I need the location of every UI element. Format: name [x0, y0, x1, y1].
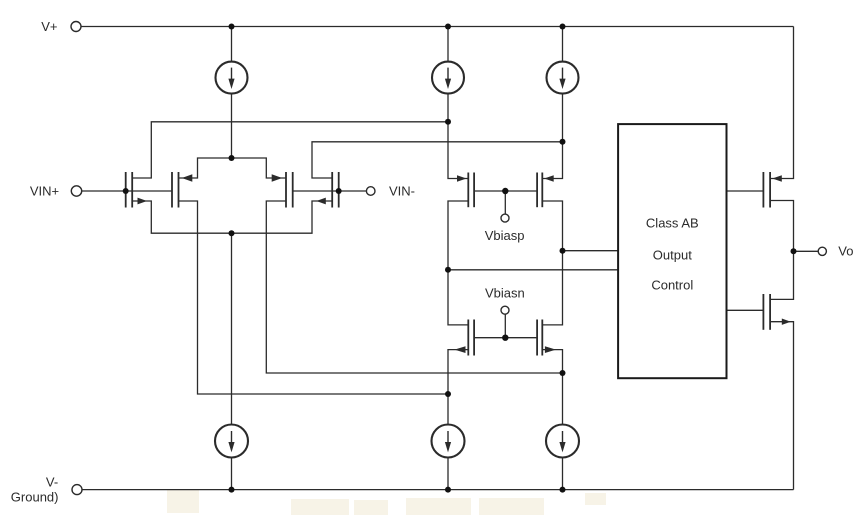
- svg-text:Ground): Ground): [11, 490, 59, 505]
- svg-text:Output: Output: [653, 248, 692, 263]
- svg-text:Control: Control: [651, 278, 693, 293]
- svg-text:Class AB: Class AB: [646, 216, 699, 231]
- svg-text:Vo: Vo: [838, 244, 853, 259]
- svg-text:VIN-: VIN-: [389, 184, 415, 199]
- svg-text:Vbiasp: Vbiasp: [485, 228, 525, 243]
- svg-text:V-: V-: [46, 475, 58, 490]
- svg-text:Vbiasn: Vbiasn: [485, 286, 525, 301]
- svg-text:VIN+: VIN+: [30, 184, 59, 199]
- svg-text:V+: V+: [41, 19, 57, 34]
